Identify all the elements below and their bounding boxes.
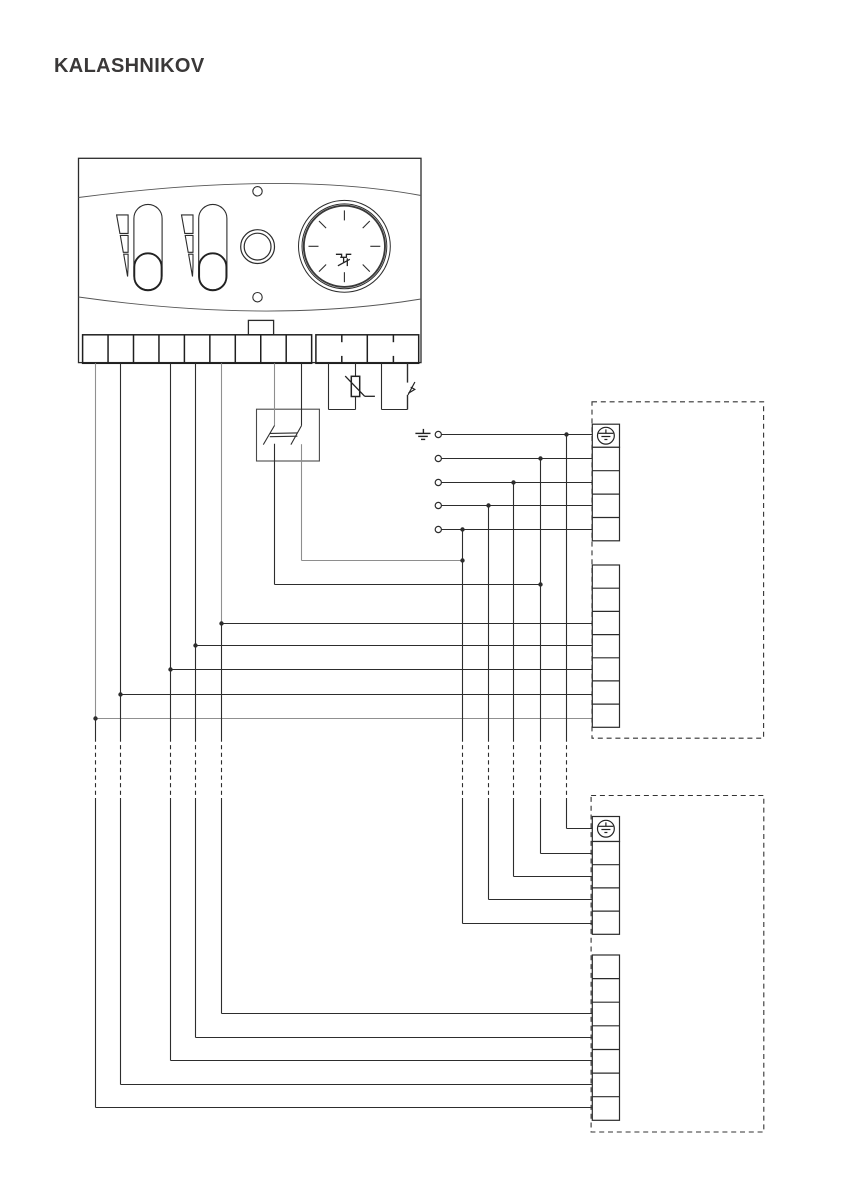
wire net N5 to connector box 2 pin U5	[463, 923, 593, 925]
connector box 1 upper terminal strip	[592, 447, 619, 541]
connector box 2 earth terminal	[592, 817, 619, 842]
gauge dial outer rim	[299, 200, 391, 292]
connector box 2 dashed enclosure	[591, 796, 764, 1133]
wire from terminal 5 down	[195, 363, 197, 645]
wire terminal 1 dashed continuation	[95, 719, 97, 1108]
wire from terminal 1 down	[95, 363, 97, 718]
wire terminal 6 dashed continuation	[221, 624, 223, 1014]
module contact blade right	[291, 426, 302, 445]
junction terminal 6 net	[219, 621, 223, 625]
pressure switch lead upper	[407, 363, 409, 382]
panel top curve	[79, 183, 422, 197]
pressure switch SP1 blade	[408, 382, 415, 395]
thermistor RT1 body	[351, 376, 359, 396]
thermistor RT1 diagonal	[345, 376, 365, 396]
slider knob 2	[199, 253, 226, 290]
wire terminal 5 to connector box 1 pin L4	[196, 645, 593, 647]
gauge dial inner ring b	[304, 206, 385, 287]
pressure switch lead lower	[407, 395, 409, 410]
wire terminal 5 to connector box 2 pin L4	[196, 1037, 593, 1039]
connector pin P1	[435, 431, 441, 437]
connector pin P2	[435, 455, 441, 461]
wire terminal 6 to connector box 2 pin L3	[222, 1013, 593, 1015]
ignition module box U1	[257, 409, 320, 461]
connector box 2 lower terminal strip	[592, 955, 619, 1120]
pressure switch SP1 arrow mark	[408, 387, 414, 393]
screw top	[253, 187, 262, 196]
junction terminal 5 net	[193, 643, 197, 647]
connector box 2 earth symbol	[598, 820, 615, 837]
wire module left leg to net N2	[275, 584, 541, 586]
NTC sensor lead lower	[355, 397, 357, 410]
pressure switch loop bottom	[382, 409, 408, 411]
wire terminal 4 to connector box 1 pin L5	[171, 669, 593, 671]
slider track 2	[199, 204, 227, 289]
wire from terminal 6 down	[221, 363, 223, 623]
connector box 1 dashed enclosure	[592, 402, 764, 738]
wire net N1 vertical	[566, 435, 568, 829]
terminal block left group	[83, 335, 312, 364]
wire net N4 to connector box 2 pin U4	[489, 899, 593, 901]
screw bottom	[253, 293, 262, 302]
wire net N2 horizontal	[442, 458, 593, 460]
wire net N1 earth horizontal	[442, 434, 593, 436]
module bridge bar lower	[270, 435, 298, 438]
wire terminal 6 to connector box 1 pin L3	[222, 623, 593, 625]
gauge dial inner ring a	[302, 204, 387, 289]
slider knob 1	[134, 253, 161, 290]
wire module right leg down	[301, 444, 303, 560]
junction terminal 4 net	[168, 667, 172, 671]
connector box 2 upper terminal strip	[592, 842, 619, 935]
junction net N1	[564, 432, 568, 436]
module bridge bar upper	[270, 432, 298, 435]
terminal block bump	[248, 320, 273, 334]
chassis ground symbol	[415, 429, 430, 440]
wire terminal 5 dashed continuation	[195, 646, 197, 1038]
wire net N5 horizontal	[442, 529, 593, 531]
wire net N3 vertical	[513, 483, 515, 877]
gauge tick marks	[309, 210, 381, 282]
wire terminal 1 to connector box 1 pin L7	[96, 718, 593, 720]
junction net N2	[538, 456, 542, 460]
wire terminal 4 to connector box 2 pin L5	[171, 1060, 593, 1062]
wire net N2 vertical	[540, 459, 542, 854]
NTC sensor lead upper	[355, 363, 357, 376]
wire net N5 vertical	[462, 530, 464, 924]
junction terminal 1 net	[93, 716, 97, 720]
junction terminal 2 net	[118, 692, 122, 696]
wire terminal 2 to connector box 1 pin L6	[121, 694, 593, 696]
NTC sensor loop left leg	[328, 363, 330, 409]
wire net N4 vertical	[488, 506, 490, 900]
slider track 1	[134, 204, 162, 289]
level indicator wedge 2	[182, 215, 194, 277]
wire net N1 to connector box 2 earth	[567, 828, 593, 830]
wire terminal 2 to connector box 2 pin L6	[121, 1084, 593, 1086]
wire net N2 to connector box 2 pin U2	[541, 853, 593, 855]
pressure switch loop left leg	[381, 363, 383, 409]
terminal block right group	[316, 335, 419, 364]
connector pin P3	[435, 479, 441, 485]
wire net N3 to connector box 2 pin U3	[514, 876, 593, 878]
wire net N3 horizontal	[442, 482, 593, 484]
connector box 1 earth symbol	[598, 427, 615, 444]
connector box 1 lower terminal strip	[592, 565, 619, 727]
wire net N4 horizontal	[442, 505, 593, 507]
junction net N3	[511, 480, 515, 484]
wire terminal 8 to module	[274, 363, 276, 425]
junction module right on net N5	[460, 558, 464, 562]
round button inner	[244, 233, 271, 260]
junction net N5	[460, 527, 464, 531]
wire module left leg down	[274, 444, 276, 585]
NTC sensor loop bottom	[329, 409, 356, 411]
boiler control panel outline	[79, 158, 422, 362]
wire terminal 4 dashed continuation	[170, 670, 172, 1061]
wire module right leg to net N5	[302, 560, 463, 562]
wire from terminal 2 down	[120, 363, 122, 694]
connector pin P4	[435, 502, 441, 508]
brand logo KALASHNIKOV	[54, 55, 205, 78]
junction module left on net N2	[538, 582, 542, 586]
panel bottom curve	[79, 297, 422, 311]
wire terminal 1 to connector box 2 pin L7	[96, 1107, 593, 1109]
connector box 1 earth terminal	[592, 424, 619, 447]
round button outer	[241, 230, 275, 264]
wire from terminal 4 down	[170, 363, 172, 669]
wire terminal 9 to module	[301, 363, 303, 425]
gauge centre glyph	[336, 254, 351, 266]
junction net N4	[486, 503, 490, 507]
level indicator wedge 1	[117, 215, 129, 277]
module contact blade left	[263, 426, 274, 445]
wire terminal 2 dashed continuation	[120, 695, 122, 1085]
thermistor RT1 tail	[365, 395, 375, 397]
connector pin P5	[435, 526, 441, 532]
